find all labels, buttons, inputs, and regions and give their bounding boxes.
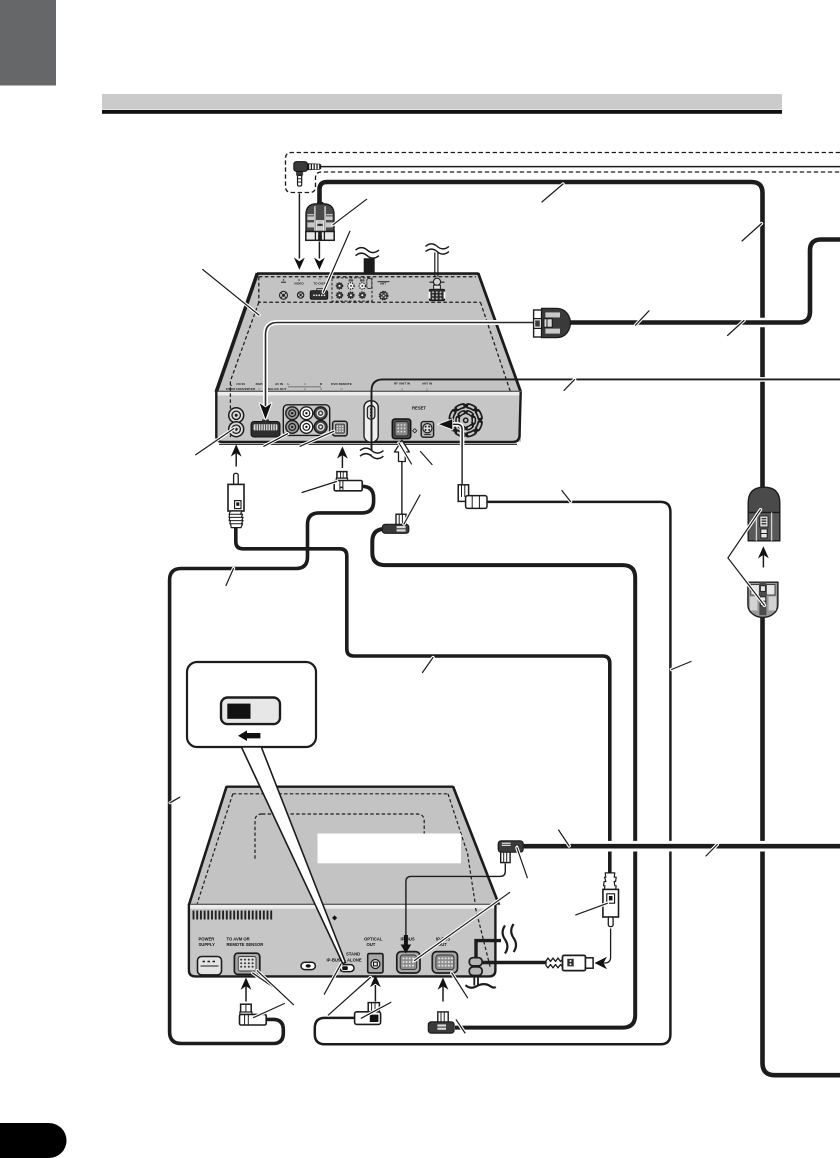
AVM elbow plug (bottom left) [240,1004,267,1025]
svg-text:ALONE: ALONE [347,958,362,963]
IP-BUS head-unit elbow (dark, above cable C) [498,841,523,863]
wired remote adapter elbow (white) [458,485,487,509]
DVD antenna jack lower [469,967,482,976]
RF antenna thin cable [540,377,840,382]
svg-text:□: □ [426,388,428,392]
svg-text:REMOTE SENSOR: REMOTE SENSOR [227,942,264,947]
leader: cable A horizontal [542,184,563,202]
arrow up (AVM elbow into port) [245,986,247,1002]
AV-BUS cable plug (top) [306,202,334,240]
DVD unit right inner dashed [468,854,476,905]
DVD stand-alone switch [340,965,354,972]
DVD IP-BUS out port [432,952,457,973]
mini-jack thin cable [320,166,840,168]
leader: AVM port fan [253,973,282,993]
rear DVD remote square connector [333,421,348,436]
svg-text:▨▨: ▨▨ [348,279,353,282]
svg-text:▨▨: ▨▨ [360,279,365,282]
dashed cable outline flag [286,153,840,193]
DVD antenna jack upper [469,958,482,966]
antenna wire break squiggle [426,244,449,254]
arrow up (optical elbow) [341,453,343,468]
hideaway unit rear panel outline [216,391,520,442]
optical cable left loop (cable D) [170,486,374,1043]
leader: AV-BUS plug [333,199,367,225]
right interior dashed slope [481,302,511,391]
rear white cable channel [364,401,378,442]
top panel AV-BUS dark connector [317,289,324,292]
svg-text:TO AVM OR: TO AVM OR [227,937,250,942]
optical elbow plug (bottom) [355,1003,381,1025]
leader: IP-BUS OUT port fan [452,973,468,998]
dangling cable wave [466,984,496,988]
leader: cable D tick [226,569,234,586]
leader: RCA plug lower [576,903,608,915]
svg-text:RESET: RESET [412,406,426,411]
DVD antenna cable loop [476,941,501,961]
optical elbow plug (top, white) [334,472,362,491]
white arrow up (IP-BUS elbow into DIN) [401,462,403,514]
leader: cable G vertical [672,662,692,670]
antenna lead break squiggle (fat stub) [356,248,379,274]
leader: IP-BUS head elbow [517,848,527,878]
antenna wire double line [435,253,438,277]
leader: AV-BUS connectors pair [728,510,765,606]
hideaway unit top face [216,274,521,392]
DVD unit top edge [226,786,453,788]
IP-BUS head unit cable (cable C) [526,841,840,852]
DVD unit dashed recess rect [255,814,424,861]
top panel screw 1 [280,291,288,299]
top panel antenna connector [429,289,444,300]
svg-text:□: □ [320,387,322,391]
rear 22-pin RGB connector [251,420,280,438]
leader: display cable tick 2 [728,321,745,336]
leader: optical port below [300,431,334,446]
rear RCA jack lower [229,422,244,437]
arrow up (IP-BUS OUT elbow into port) [442,986,444,1002]
svg-text:VIDEO: VIDEO [294,282,304,286]
leader: optical elbow [302,482,337,493]
svg-text:IP-BUS: IP-BUS [327,958,341,963]
top panel screw 2 [297,292,303,298]
svg-text:□: □ [304,382,306,386]
DVD panel diamond mark [332,915,337,920]
svg-text:L: L [288,382,290,386]
svg-text:RGB: RGB [256,382,264,386]
top panel antenna base [430,281,445,283]
arrow down (wired remote lead) [298,194,300,259]
leader: optical bottom elbow [361,1002,391,1018]
DVD IP-BUS in port [397,952,420,973]
leader: DIN port fan1 [399,443,412,464]
leader: screw port fan2 [421,452,433,465]
svg-text:□: □ [401,388,403,392]
IP-BUS down arrow [401,935,412,954]
leader: cable A vertical [742,224,762,242]
DVD unit left slope edge [189,786,227,905]
top panel RCA group row2 [336,292,365,298]
RGB cable insertion arrow [260,403,272,419]
callout switch [221,698,280,725]
IP-BUS long cable (cable F) [372,529,635,1028]
RF cable break squiggle [360,448,383,459]
DVD panel labels [199,937,451,963]
rear label: CD IN / FROM CONVERTER [226,382,433,392]
DVD unit right slope edge [453,786,499,905]
rear fan [451,406,480,435]
svg-text:FROM CONVERTER: FROM CONVERTER [226,387,256,391]
DVD middle oval connector [301,962,315,969]
DVD vent slats [194,911,272,920]
hideaway unit rear panel [216,395,521,442]
title bar [102,94,782,110]
antenna adapter molded socket [546,955,593,970]
DVD TO-AVM connector [234,953,259,974]
DVD unit white label [318,834,462,864]
AV-BUS upper inline connector (female) [748,487,780,541]
DVD unit rear panel outline [189,904,496,976]
leader: cable E horizontal [423,658,434,673]
svg-text:□: □ [341,387,343,391]
display thick cable (cable B) [568,240,840,323]
hideaway unit fold highlight [216,391,521,395]
arrow up (video RCA into CD IN) [235,451,237,467]
title rule [102,110,782,114]
DVD power supply connector [198,957,222,975]
svg-text:OPTICAL: OPTICAL [364,937,383,942]
IP-BUS elbow pointer line [406,864,505,937]
tiny diamond [413,429,417,433]
RCA cable upper run [236,528,610,874]
rear RF DIN port [392,419,410,439]
leader: RF cable tick [564,380,575,391]
hideaway unit right slope edge [478,273,521,392]
callout wedge pointer [241,747,345,964]
top panel screw 4 [379,291,387,299]
svg-text:□: □ [304,387,306,391]
DVD optical out port [368,954,383,973]
leader: AVM elbow [254,1004,285,1018]
optical cable right run (cable G) [315,502,671,1044]
svg-text:DVD REMOTE: DVD REMOTE [331,382,352,386]
leader: 22pin below [264,434,288,447]
rear AV RCA jacks [286,407,327,433]
hideaway unit left slope edge [216,273,257,392]
leader: switch [324,964,341,994]
hideaway unit bottom lip [219,443,517,445]
rear AV RCA block outline [283,405,329,436]
leader: IP-BUS in long [415,893,510,961]
left interior dashed slope [230,302,258,437]
IP-BUS elbow plug (below DIN port, dark) [382,514,408,533]
IP-BUS OUT elbow plug (bottom, dark) [428,1012,454,1033]
leader: CD IN jack [196,429,234,455]
DVD rear panel dashed diagonal [476,908,491,968]
video RCA plug (tip down) [603,873,619,927]
leader: left loop tick [170,797,180,803]
AV-BUS lower inline connector (male) [748,582,778,617]
RGB cable from converter [266,323,535,409]
molded socket insertion arrow [604,929,611,964]
DVD antenna pigtail to socket [481,961,547,964]
svg-text:STAND: STAND [346,952,360,957]
top panel dashed AV group box [332,278,372,301]
leader: cable C left [559,830,570,846]
svg-text:ANT IN: ANT IN [422,382,433,386]
DVD antenna lower cable dangling [474,975,478,986]
page corner block [0,0,56,86]
rear RCA jack upper (CD IN) [229,408,244,423]
DVD unit inset dashed outline [197,794,468,904]
DVD unit rear panel [189,909,496,976]
arrow up (AV-BUS connectors join) [762,553,764,568]
leader: optical out port [328,978,370,1016]
heat waves [503,924,516,954]
leader: IP-BUS OUT elbow [456,1020,465,1033]
DVD unit top face [189,787,499,905]
hideaway unit top edge [257,272,479,275]
svg-text:POWER: POWER [199,937,215,942]
leader: hideaway unit [203,270,259,316]
leader: display cable tick 1 [636,311,650,325]
remote adapter pointer with arrow [452,424,462,484]
top panel small jack [367,279,372,289]
RGB inline connector [534,308,571,337]
top panel RCA group row1 [336,279,365,289]
svg-text:□: □ [319,277,321,281]
leader: IP-BUS elbow head [404,495,420,524]
svg-text:CD IN: CD IN [236,382,245,386]
page number tab [0,1123,67,1158]
video RCA plug (tip up) [228,473,244,527]
AV-BUS thick cable (cable A) [320,182,763,489]
top panel dashed strip [259,277,481,303]
callout arrow left [238,730,260,741]
DVD unit fold highlight [189,904,499,909]
svg-text:AV IN: AV IN [275,382,284,386]
svg-text:▲: ▲ [282,278,285,282]
wired remote mini-jack plug [294,162,321,186]
leader: optical cable G [562,491,571,502]
arrow up (optical elbow into port) [374,985,376,1002]
svg-text:□: □ [258,387,260,391]
svg-text:SUPPLY: SUPPLY [199,942,216,947]
svg-text:RF UNIT IN: RF UNIT IN [394,382,411,386]
svg-text:OUT: OUT [367,942,376,947]
svg-text:ANALOG OUT: ANALOG OUT [266,387,287,391]
top panel tiny labels [282,277,438,286]
leader: cable C right [706,845,717,857]
rear wired remote screw port [421,422,433,438]
callout box [187,662,316,747]
arrow down (AV-BUS plug) [318,242,320,259]
leader: AV-BUS port on panel [323,231,350,292]
svg-text:TO DISP: TO DISP [313,282,325,286]
